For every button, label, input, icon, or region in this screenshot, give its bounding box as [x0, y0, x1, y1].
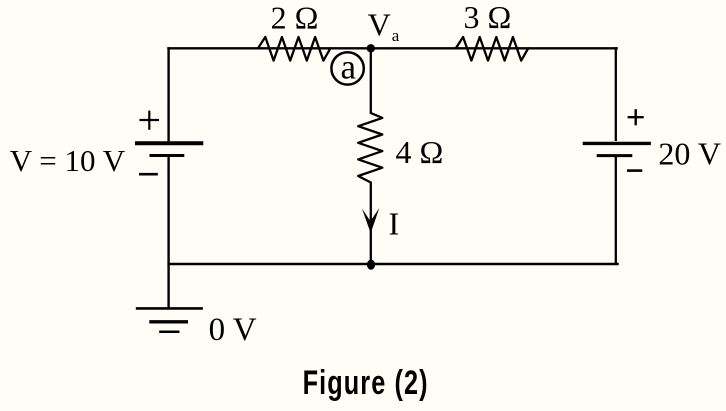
wire left vertical lower — [167, 156, 169, 308]
battery V1 short plate — [150, 154, 185, 157]
svg-text:3 Ω: 3 Ω — [464, 0, 512, 35]
wire right vertical upper — [615, 47, 617, 141]
battery V2 minus sign — [627, 169, 642, 172]
svg-text:2 Ω: 2 Ω — [271, 0, 319, 35]
svg-text:20 V: 20 V — [658, 136, 721, 172]
node bottom junction dot — [367, 260, 375, 270]
current arrow I head — [362, 208, 379, 233]
ground bar 1 — [136, 307, 203, 310]
ground bar 2 — [149, 320, 188, 323]
svg-text:4 Ω: 4 Ω — [396, 134, 444, 170]
battery V1 minus sign — [139, 173, 158, 176]
wire bottom — [167, 263, 618, 265]
battery V1 long plate — [135, 141, 203, 145]
svg-text:a: a — [341, 47, 357, 86]
ground bar 3 — [159, 330, 179, 333]
wire left vertical upper — [167, 47, 169, 141]
battery V2 plus sign — [628, 109, 644, 125]
battery V2 long plate — [583, 142, 651, 145]
resistor R3 4ohm vertical zigzag — [358, 113, 382, 183]
svg-text:I: I — [389, 205, 400, 241]
battery V2 short plate — [597, 154, 633, 157]
svg-text:a: a — [392, 26, 400, 45]
wire top — [167, 47, 618, 49]
node Va dot — [367, 44, 375, 52]
wire right vertical lower — [615, 155, 617, 264]
svg-text:0 V: 0 V — [209, 312, 257, 348]
resistor R1 2ohm zigzag — [258, 37, 330, 61]
node a circled label — [331, 52, 363, 84]
wire middle vertical upper — [370, 47, 372, 113]
svg-text:V: V — [368, 6, 391, 42]
wire middle vertical lower — [370, 182, 372, 264]
svg-text:V = 10 V: V = 10 V — [10, 143, 126, 178]
battery V1 plus sign — [140, 111, 160, 130]
svg-text:Figure (2): Figure (2) — [303, 364, 429, 402]
resistor R2 3ohm zigzag — [456, 37, 528, 61]
